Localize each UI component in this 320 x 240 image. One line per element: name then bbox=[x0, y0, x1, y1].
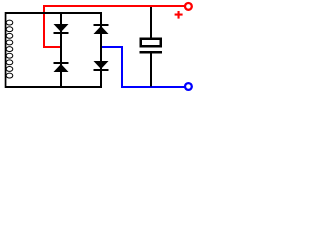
wire blue horizontal from right bridge midpoint bbox=[101, 46, 123, 48]
diode D2 (lower left, cathode up) bbox=[54, 62, 69, 72]
capacitor C1 top plate (box) bbox=[140, 38, 163, 48]
wire top AC rail bbox=[5, 12, 102, 14]
wire red horizontal to left bridge midpoint bbox=[43, 46, 61, 48]
wire left bridge branch bbox=[60, 12, 62, 88]
diode D4 (lower right, cathode down) bbox=[94, 61, 109, 71]
diode D3 (upper right, cathode up) bbox=[94, 24, 109, 34]
inductor L1 (transformer secondary winding, 9 loops) bbox=[6, 20, 13, 78]
wire bottom AC rail bbox=[5, 86, 102, 88]
wire red vertical from + node bbox=[43, 5, 45, 48]
wire blue vertical bbox=[121, 46, 123, 88]
wire red + rail (top) bbox=[43, 5, 185, 7]
wire right bridge branch bbox=[100, 12, 102, 88]
label + bbox=[175, 11, 183, 19]
capacitor C1 (polarized, top lead) bbox=[150, 7, 152, 38]
capacitor C1 bottom plate bbox=[140, 51, 163, 54]
terminal + (red) bbox=[185, 3, 192, 10]
capacitor C1 bottom lead bbox=[150, 54, 152, 87]
wire blue - rail (bottom) bbox=[121, 86, 185, 88]
terminal - (blue) bbox=[185, 83, 192, 90]
wire left vertical (transformer secondary) bbox=[5, 12, 7, 88]
diode D1 (upper left, cathode down) bbox=[54, 24, 69, 34]
